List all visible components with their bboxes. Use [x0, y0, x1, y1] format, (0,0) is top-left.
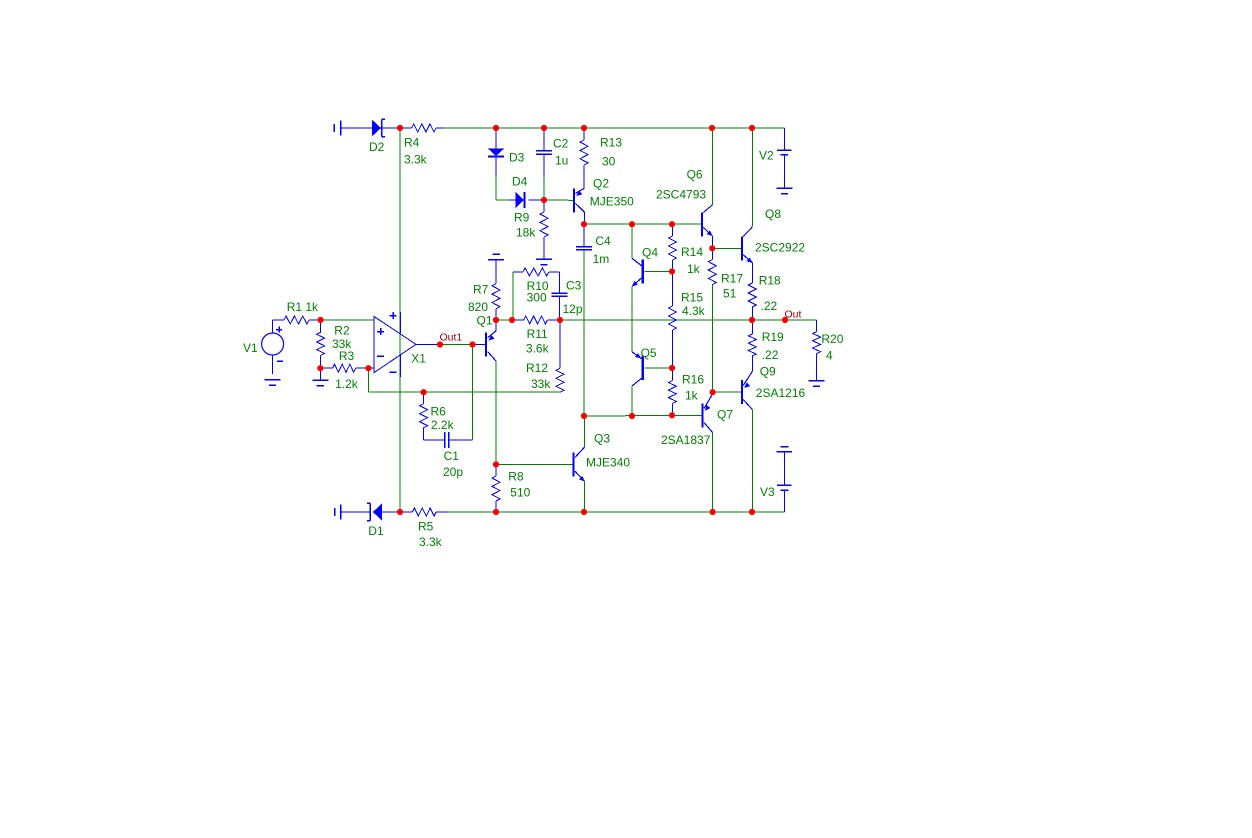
- svg-text:C3: C3: [566, 278, 582, 292]
- svg-text:Q5: Q5: [641, 346, 657, 360]
- svg-text:R1 1k: R1 1k: [287, 300, 319, 314]
- wire Q4 collector: [631, 224, 633, 258]
- svg-text:Q8: Q8: [765, 207, 781, 221]
- capacitor C2: [543, 128, 545, 151]
- svg-text:33k: 33k: [531, 377, 551, 391]
- resistor R19: [751, 320, 753, 334]
- wire D3 to D4 corner: [495, 158, 497, 177]
- resistor R13: [583, 128, 585, 140]
- diode D4: [516, 192, 524, 209]
- svg-text:C2: C2: [553, 136, 569, 150]
- resistor R3: [333, 364, 356, 372]
- svg-text:R14: R14: [681, 245, 703, 259]
- node Q2 emitter dot: [581, 221, 587, 227]
- svg-text:D3: D3: [509, 150, 525, 164]
- svg-text:D2: D2: [369, 140, 385, 154]
- svg-text:Q1: Q1: [477, 313, 493, 327]
- svg-text:20p: 20p: [443, 465, 463, 479]
- svg-text:R8: R8: [508, 469, 524, 483]
- node Q3 collector dot: [581, 413, 587, 419]
- svg-text:.22: .22: [761, 299, 778, 313]
- svg-text:V3: V3: [760, 485, 775, 499]
- node rail/C2 dot: [541, 125, 547, 131]
- wire feedback horizontal y=392: [368, 391, 560, 393]
- node R8 bottom dot: [493, 509, 499, 515]
- wire vertical x=400 rail-to-rail: [399, 128, 401, 512]
- diode D3: [495, 128, 497, 148]
- svg-text:R3: R3: [339, 349, 355, 363]
- capacitor C1: [424, 439, 445, 441]
- node Q6 emitter dot: [709, 245, 715, 251]
- svg-text:V2: V2: [759, 149, 774, 163]
- transistor Q2 MJE350: [573, 188, 575, 212]
- wire C1 up to Out1: [472, 345, 474, 441]
- svg-text:R19: R19: [762, 330, 784, 344]
- svg-text:3.6k: 3.6k: [526, 342, 550, 356]
- svg-text:R5: R5: [418, 520, 434, 534]
- svg-text:18k: 18k: [516, 225, 536, 239]
- svg-text:R15: R15: [681, 290, 703, 304]
- node VAS/Q4 dot: [629, 221, 635, 227]
- svg-text:820: 820: [468, 300, 488, 314]
- diode D1: [373, 504, 382, 521]
- resistor R6: [423, 392, 425, 404]
- svg-text:Q9: Q9: [760, 364, 776, 378]
- resistor R5: [412, 508, 436, 516]
- transistor Q3 MJE340: [572, 452, 574, 476]
- wire Q6 collector: [711, 128, 713, 205]
- svg-text:Out1: Out1: [440, 332, 463, 344]
- svg-text:R12: R12: [526, 361, 548, 375]
- node rail/R4 dot: [397, 125, 403, 131]
- node D4/C2/R9/Q2 dot: [541, 197, 547, 203]
- svg-text:300: 300: [527, 291, 547, 305]
- ground below R9: [536, 258, 552, 260]
- battery V2: [784, 128, 786, 150]
- terminal input bottom-left: [334, 508, 336, 516]
- transistor Q5: [642, 356, 644, 380]
- resistor R10: [523, 268, 549, 276]
- svg-text:R18: R18: [759, 274, 781, 288]
- svg-text:C4: C4: [595, 234, 611, 248]
- node Out1 dot: [437, 341, 443, 347]
- node Q3 emitter dot: [581, 509, 587, 515]
- svg-text:2SC4793: 2SC4793: [656, 187, 706, 201]
- wire VAS rail y=224: [584, 223, 701, 225]
- svg-text:1m: 1m: [593, 252, 610, 266]
- resistor R7: [495, 260, 497, 284]
- transistor Q8 2SC2922: [741, 236, 743, 260]
- transistor Q1: [485, 333, 487, 357]
- resistor R1: [273, 319, 284, 321]
- node Out1/C1 dot: [469, 341, 475, 347]
- resistor R2: [320, 320, 322, 332]
- svg-text:R20: R20: [821, 332, 843, 346]
- node -input dot: [365, 365, 371, 371]
- resistor R18: [748, 283, 756, 307]
- node rail/D3 dot: [493, 125, 499, 131]
- resistor R17: [711, 248, 713, 259]
- svg-text:4: 4: [826, 349, 833, 363]
- svg-text:C1: C1: [444, 449, 460, 463]
- resistor R20: [816, 320, 818, 332]
- wire Q3 base: [496, 463, 572, 465]
- svg-text:MJE350: MJE350: [590, 194, 634, 208]
- resistor R15: [671, 272, 673, 307]
- wire -input to op-amp: [368, 367, 374, 369]
- wire Q2 base: [544, 199, 573, 201]
- node output dot: [749, 317, 755, 323]
- node Q9 emitter rail dot: [749, 509, 755, 515]
- ground below R20: [809, 380, 825, 382]
- wire main mid rail y=320: [496, 319, 512, 321]
- diode D2: [372, 120, 381, 137]
- node R11 right dot: [557, 317, 563, 323]
- node Q7 base dot: [669, 412, 675, 418]
- wire R10 left leg: [512, 272, 514, 320]
- svg-text:MJE340: MJE340: [586, 456, 630, 470]
- resistor R14: [671, 224, 673, 236]
- svg-text:Q4: Q4: [642, 245, 658, 259]
- wire top rail left lead: [341, 127, 372, 129]
- op-amp X1: [374, 317, 416, 373]
- wire top positive rail y=128: [444, 127, 785, 129]
- wire R10 right leg: [549, 271, 560, 273]
- svg-text:X1: X1: [411, 352, 426, 366]
- svg-text:12p: 12p: [563, 302, 583, 316]
- svg-text:1k: 1k: [687, 262, 701, 276]
- svg-text:R13: R13: [600, 135, 622, 149]
- svg-text:R16: R16: [682, 372, 704, 386]
- svg-text:R9: R9: [514, 210, 530, 224]
- node rail/Q8 dot: [749, 125, 755, 131]
- node R2/R3 dot: [317, 365, 323, 371]
- svg-text:.22: .22: [762, 348, 779, 362]
- transistor Q4: [642, 260, 644, 284]
- node Q5 collector dot: [629, 413, 635, 419]
- resistor R12: [559, 320, 561, 368]
- wire Q4-Q5 emitters: [631, 286, 633, 352]
- resistor R11: [512, 319, 524, 321]
- svg-text:4.3k: 4.3k: [682, 304, 706, 318]
- resistor R8: [495, 464, 497, 476]
- node R8 top dot: [493, 461, 499, 467]
- wire feedback vertical: [367, 368, 369, 392]
- wire node A to op-amp +input: [321, 319, 374, 321]
- svg-text:51: 51: [723, 286, 737, 300]
- node driver mid dot: [710, 389, 716, 395]
- svg-text:R7: R7: [473, 282, 489, 296]
- node rail/R14 dot: [669, 221, 675, 227]
- node rail/R5 dot: [397, 509, 403, 515]
- node R7/Q1 dot: [493, 317, 499, 323]
- node R6 top dot: [421, 389, 427, 395]
- svg-text:Q7: Q7: [717, 407, 733, 421]
- node rail/R13 dot: [581, 125, 587, 131]
- node Q4 base dot: [669, 268, 675, 274]
- svg-text:1u: 1u: [555, 153, 568, 167]
- svg-text:30: 30: [602, 154, 616, 168]
- wire Q8 base: [712, 247, 741, 249]
- node Out dot: [782, 317, 788, 323]
- wire Q8 collector: [751, 128, 753, 227]
- svg-text:R11: R11: [527, 327, 548, 341]
- svg-text:R2: R2: [334, 324, 350, 338]
- battery V3: [781, 446, 789, 448]
- resistor R16: [671, 368, 673, 381]
- svg-text:Q2: Q2: [593, 176, 609, 190]
- terminal input top-left: [333, 124, 335, 132]
- wire Q9 base: [713, 391, 741, 393]
- svg-text:2SA1837: 2SA1837: [661, 433, 711, 447]
- node A dot: [318, 317, 324, 323]
- svg-text:Q3: Q3: [594, 431, 610, 445]
- svg-text:510: 510: [510, 486, 530, 500]
- node Q7 collector rail dot: [710, 509, 716, 515]
- transistor Q6 2SC4793: [701, 212, 703, 236]
- svg-text:3.3k: 3.3k: [404, 152, 428, 166]
- node rail/Q6 dot: [709, 125, 715, 131]
- node R10 left dot: [509, 317, 515, 323]
- svg-text:1.2k: 1.2k: [335, 377, 359, 391]
- ground below V1: [265, 379, 281, 381]
- node Q5 base dot: [669, 365, 675, 371]
- transistor Q7 2SA1837: [702, 403, 704, 427]
- capacitor C4: [583, 224, 585, 246]
- wire bias rail y=416: [584, 414, 702, 417]
- svg-text:Q6: Q6: [687, 167, 703, 181]
- capacitor C3: [552, 292, 568, 294]
- wire D4 to node: [528, 199, 544, 201]
- ground below V2: [777, 187, 793, 189]
- wire bottom negative rail y=512: [448, 511, 785, 513]
- svg-text:2SA1216: 2SA1216: [756, 386, 806, 400]
- svg-text:3.3k: 3.3k: [419, 535, 443, 549]
- ground below R2: [319, 368, 321, 380]
- transistor Q9 2SA1216: [741, 380, 743, 404]
- svg-text:D1: D1: [368, 524, 384, 538]
- svg-text:1k: 1k: [685, 388, 699, 402]
- svg-text:2SC2922: 2SC2922: [755, 240, 805, 254]
- svg-text:V1: V1: [243, 341, 258, 355]
- resistor R4: [412, 124, 436, 132]
- svg-text:2.2k: 2.2k: [431, 418, 455, 432]
- svg-text:R6: R6: [431, 404, 447, 418]
- resistor R9: [543, 200, 545, 212]
- source V1: [262, 333, 284, 355]
- op-amp output wire: [416, 344, 440, 346]
- svg-text:R17: R17: [721, 271, 743, 285]
- wire Out1 to Q1 base: [440, 344, 473, 346]
- svg-text:R4: R4: [404, 135, 420, 149]
- power terminal above R7: [493, 253, 500, 255]
- svg-text:D4: D4: [512, 174, 528, 188]
- wire bottom rail left lead: [341, 511, 370, 513]
